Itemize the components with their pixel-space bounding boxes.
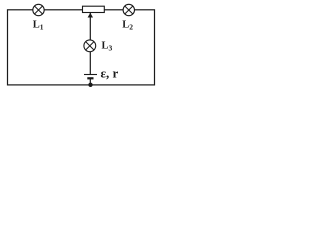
svg-text:L2: L2: [122, 19, 133, 31]
svg-text:L3: L3: [102, 40, 113, 52]
battery cell: long plate (+): [84, 74, 97, 76]
wire: middle branch vertical: [89, 13, 91, 75]
lamp L2: [123, 4, 134, 15]
lamp L1: [33, 4, 44, 15]
lamp L3: [84, 40, 96, 52]
wire: outer circuit loop: [8, 10, 155, 85]
battery cell: short thick plate (-): [87, 77, 93, 79]
svg-text:ε, r: ε, r: [101, 66, 119, 81]
rheostat wiper arrowhead: [88, 13, 93, 18]
wire: battery to bottom node: [89, 79, 91, 86]
svg-text:L1: L1: [33, 19, 44, 31]
rheostat R (slider) body: [83, 6, 105, 12]
node: junction dot on bottom wire: [88, 83, 92, 87]
